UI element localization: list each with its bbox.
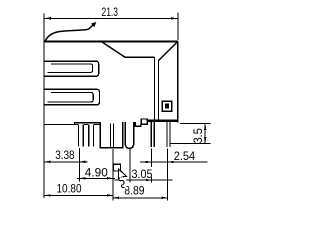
svg-text:3.5: 3.5 bbox=[191, 128, 205, 143]
panel stop detail inner square (filled) bbox=[165, 104, 169, 109]
notch right diagonal bbox=[158, 42, 177, 61]
arrow 4.90 right bbox=[107, 177, 113, 179]
dim 3.5 top extension bbox=[180, 123, 211, 125]
slot 1 outer bbox=[45, 61, 99, 76]
arrow 8.89 right bbox=[162, 197, 168, 199]
arrow 2.54 left (outside) bbox=[146, 161, 152, 163]
arrow 10.80 left bbox=[45, 194, 51, 196]
post block inner lines bbox=[110, 124, 113, 148]
slot 2 inner bbox=[47, 93, 93, 102]
cursor tail squiggle bbox=[119, 178, 125, 188]
contact pin 2 (hollow) bbox=[89, 124, 94, 146]
dim 3.38 line bbox=[44, 161, 88, 163]
ext line x=113 bbox=[112, 149, 114, 200]
bottom ledge between U pin and square bbox=[135, 122, 141, 126]
svg-text:21.3: 21.3 bbox=[102, 5, 119, 19]
recess lower lip segments bbox=[74, 123, 100, 125]
dim 8.89 line bbox=[113, 197, 168, 199]
body top edge bbox=[44, 41, 178, 43]
ext line x=79.4 bbox=[78, 148, 80, 182]
slot 2 outer bbox=[45, 89, 100, 105]
slot 1 inner bbox=[47, 64, 92, 73]
arrow 21.3 right bbox=[171, 17, 178, 20]
ext line x=167.7 bbox=[167, 149, 169, 201]
arrow 3.05 left bbox=[124, 179, 129, 181]
svg-text:8.89: 8.89 bbox=[124, 184, 145, 198]
arrow 3.5 bottom bbox=[204, 137, 206, 143]
bottom recess step bbox=[74, 123, 100, 125]
mouse cursor arrow bbox=[119, 169, 127, 182]
ext line x=129.8 bbox=[129, 149, 131, 183]
dim 21.3 line bbox=[44, 17, 178, 19]
arrow 3.05 right bbox=[146, 179, 152, 181]
board lock pin 1 bbox=[151, 122, 154, 148]
dim 2.54 line bbox=[140, 161, 207, 163]
arrow 21.3 left bbox=[45, 17, 52, 20]
panel stop detail outer square bbox=[162, 101, 171, 111]
latch lever bbox=[45, 24, 95, 42]
plastic post block bbox=[100, 122, 122, 148]
svg-text:4.90: 4.90 bbox=[85, 165, 108, 179]
arrow 3.5 top bbox=[204, 124, 206, 130]
bottom edge left segment bbox=[44, 124, 74, 126]
dim 3.05 line bbox=[115, 179, 173, 181]
bottom edge right segment bbox=[147, 120, 178, 122]
arrow 2.54 right (outside) bbox=[168, 161, 174, 163]
svg-text:10.80: 10.80 bbox=[57, 181, 82, 195]
contact pin 1 (hollow) bbox=[79, 124, 84, 146]
body left edge + extension line bbox=[43, 14, 45, 199]
dim 3.5 bottom extension bbox=[171, 142, 211, 144]
body right edge bbox=[177, 41, 179, 122]
notch floor bbox=[125, 56, 155, 58]
svg-text:3.38: 3.38 bbox=[55, 148, 75, 162]
arrow 3.38 right (outside) bbox=[79, 161, 85, 163]
U pin (hollow, rounded bottom) bbox=[125, 122, 133, 148]
arrow 4.90 left bbox=[79, 177, 85, 179]
arrow 8.89 left bbox=[113, 197, 119, 199]
small square tab on bottom bbox=[141, 119, 147, 124]
inner wall line 2 bbox=[157, 61, 159, 120]
dim 21.3 right extension bbox=[177, 13, 179, 41]
ext line x=151.7 bbox=[151, 149, 153, 168]
arrow 3.38 left bbox=[45, 161, 51, 163]
selection grip square bbox=[113, 164, 120, 171]
svg-text:2.54: 2.54 bbox=[174, 149, 196, 163]
latch tip barb bbox=[92, 23, 96, 27]
cursor tail squiggle mask bbox=[119, 178, 126, 189]
board lock pin 2 bbox=[167, 122, 170, 148]
arrow 10.80 right bbox=[107, 194, 113, 196]
dim 4.90 line bbox=[77, 177, 115, 179]
svg-text:3.05: 3.05 bbox=[132, 167, 153, 181]
dim 10.80 line bbox=[44, 194, 113, 196]
notch left diagonal bbox=[102, 42, 125, 57]
inner wall line 1 bbox=[154, 57, 156, 120]
dim 3.5 line bbox=[204, 124, 206, 144]
